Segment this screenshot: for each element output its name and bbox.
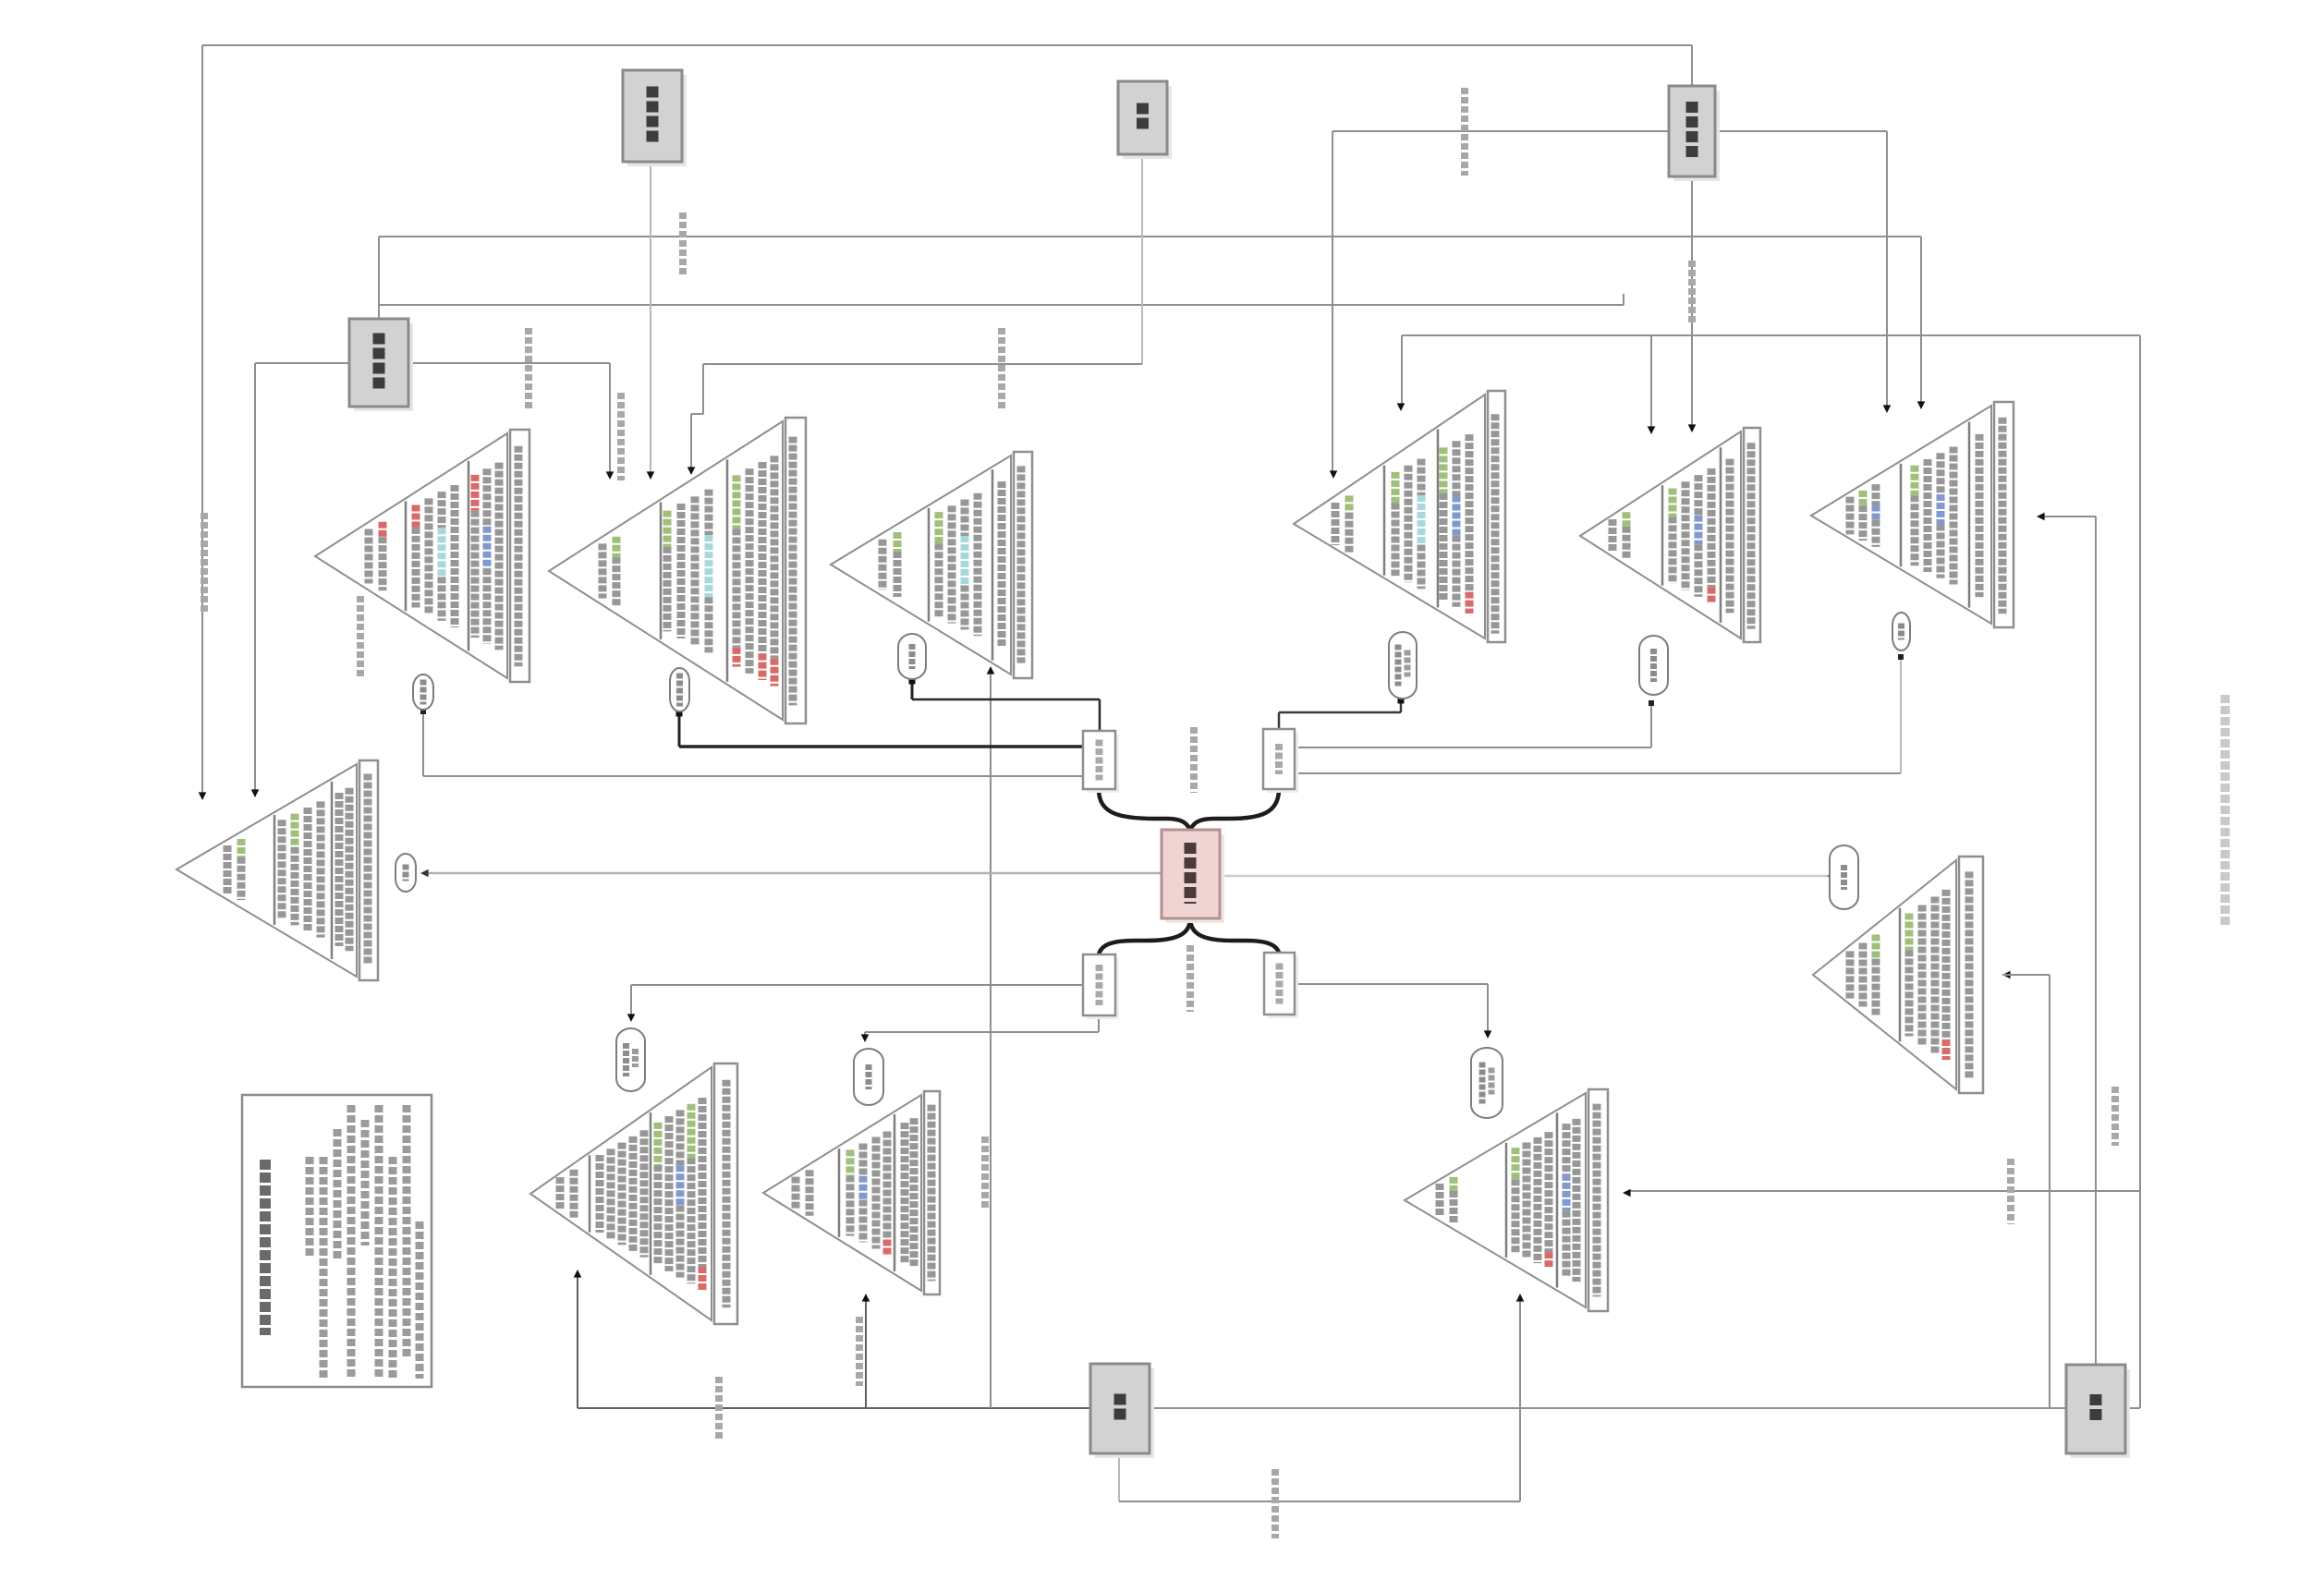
arrow into pyramid T0 from x219 line: [199, 792, 207, 800]
wire aggregator BL bottom to pill PB2: [865, 1015, 1099, 1037]
arrow into pill PR4: [1827, 872, 1835, 881]
arrow into pyramid T2 from x748: [687, 467, 696, 475]
caption figure-2 title (right edge, vertical): [2221, 695, 2230, 926]
wire label L6: [998, 328, 1005, 411]
wire sugar-diet box bottom line to R2: [1691, 176, 1693, 427]
arrow into pill PB1: [627, 1014, 636, 1022]
pill P2 CCl4-alcohol model: [670, 668, 689, 711]
wire label L2: [357, 596, 364, 679]
wire y256 horizontal from sedentary box up-line to R3: [379, 237, 1921, 404]
arrow into pyramid R2 from x1787: [1648, 426, 1656, 434]
wire label L12: [1272, 1469, 1279, 1538]
arrow into pyramid B1 bottom: [574, 1270, 582, 1278]
node aggregator BR white box: [1264, 953, 1298, 1018]
arrow into pyramid T0 from x276: [251, 789, 260, 797]
wire black Y-merge from aggregators TL TR into pink hub top: [1099, 789, 1279, 830]
wire alcohol box top line up to R3 right arrow: [2042, 516, 2096, 1365]
pill PB2 model: [854, 1049, 883, 1105]
node box high-sugar-diet (gray): [1669, 86, 1720, 181]
pyramid T2 (center-left, green-marked): [549, 418, 806, 723]
arrow into pyramid R3 from x2079: [1917, 401, 1926, 409]
wire aggregator TR top elbow to pill PR1 (dark y771): [1279, 698, 1405, 730]
wire label L13: [2007, 1159, 2014, 1224]
pill P3 CCl4 model: [898, 634, 926, 679]
wire aggregator BL left to pill PB1: [631, 985, 1083, 1016]
wire label L1: [201, 513, 208, 614]
wire label L4: [617, 393, 625, 480]
legend box (study-notes panel, bottom left): [242, 1095, 432, 1387]
wire pink hub left to pill P0: [426, 872, 1162, 875]
wire y330 horizontal from sedentary region rightwards: [379, 294, 1624, 305]
wire night-stay box down then left y394 elbow to T2: [691, 154, 1142, 469]
wire medication box down-line to T2: [650, 162, 651, 474]
pill PB3 alcohol-liver model: [1471, 1048, 1503, 1118]
arrow into pyramid R1 from x1442: [1330, 470, 1338, 479]
pyramid B3 (bottom right): [1405, 1089, 1608, 1311]
arrow into pyramid R1 from x1517: [1397, 403, 1405, 411]
node box smoking (gray): [1090, 1364, 1154, 1458]
wire label L9: [981, 1136, 989, 1210]
pill PR4 RCT: [1830, 845, 1858, 909]
pill PR3 model: [1892, 613, 1910, 650]
wire aggregator BR right to pill PB3: [1295, 984, 1488, 1033]
wire label L8: [1688, 261, 1696, 323]
pill P1 DSS model: [413, 674, 433, 710]
node aggregator TR white box: [1263, 729, 1298, 793]
arrow into pyramid B3 right side: [1623, 1189, 1631, 1197]
pyramid T3 (center, cyan-marked): [831, 452, 1032, 678]
node box sedentary (gray): [349, 319, 413, 411]
pyramid R4 (meta-analysis, right-middle): [1813, 857, 1983, 1093]
wire label L7: [1461, 88, 1468, 176]
arrow into pyramid R2 from x1831: [1688, 424, 1697, 432]
wire label L11: [856, 1317, 863, 1386]
arrow into pyramid B2 bottom: [862, 1294, 870, 1302]
pyramid R2: [1580, 428, 1760, 642]
node aggregator BL white box: [1083, 954, 1119, 1019]
wire label L5: [679, 213, 687, 277]
node pink hub silymarin: [1162, 830, 1224, 923]
node box medication-monitoring (gray): [623, 70, 687, 166]
arrow into pyramid T3 bottom: [987, 666, 995, 674]
pyramid R3: [1811, 402, 2014, 627]
wire CCl4 pill to aggregator TL top (black y757): [909, 678, 1101, 732]
node box alcohol (gray): [2066, 1365, 2130, 1458]
wire y393 sedentary box horizontal to T2: [255, 363, 610, 792]
wire DSS pill to aggregator TL (gray y840): [420, 709, 1083, 776]
wire aggregator TR right to pill PR3 (y837): [1295, 654, 1904, 773]
wire label L10: [715, 1377, 723, 1441]
pyramid T1 (sedentary, red-marked): [315, 430, 529, 682]
arrow into pyramid T2 from x660: [606, 471, 614, 480]
wire smoking box bottom y1625 elbow to B3: [1119, 1299, 1520, 1501]
node aggregator TL white box: [1083, 731, 1119, 793]
arrow into pyramid T2 from x704: [647, 471, 655, 480]
pill P0 insulin-resistance model: [395, 854, 416, 892]
node box stay-up-late (gray): [1118, 81, 1172, 159]
arrow into pill PB3: [1484, 1030, 1492, 1039]
pill PR2 fructose model: [1639, 636, 1668, 695]
arrow into pyramid R3 right side: [2037, 513, 2045, 521]
wire label L16: [1186, 945, 1194, 1012]
wire aggregator TR right to pill PR2 (y809): [1295, 700, 1654, 747]
wire y363 horizontal fed by alcohol box right line: [1402, 335, 2140, 429]
arrow into pyramid R3 from x2042: [1883, 405, 1892, 413]
pill PB1 LPS model: [616, 1028, 645, 1091]
arrow into pyramid B3 bottom: [1516, 1294, 1525, 1302]
wire label L14: [2111, 1087, 2119, 1146]
wire alcohol box right line x2316 up to y363 and branch y1289 to B3: [1628, 335, 2140, 1408]
wire y142 horizontal through sugar-diet box with left corner x1442 down to R1: [1332, 131, 1887, 473]
pill PR1 high-fat model: [1389, 632, 1417, 699]
pyramid B2 (bottom center): [763, 1091, 940, 1294]
wire top horizontal y49 from far-left down-line to sugar-diet box: [202, 45, 1692, 795]
arrow into pill PB2: [861, 1034, 870, 1042]
pyramid B1 (bottom left large): [530, 1063, 737, 1324]
wire label L15: [1190, 727, 1198, 793]
arrow into pyramid R4 right side: [2002, 971, 2050, 979]
wire label L3: [525, 328, 532, 411]
wire pink hub right to pill PR4: [1220, 875, 1830, 878]
pyramid T0 (far left, human RCT evidence): [176, 760, 378, 980]
pyramid R1 (high-sugar): [1294, 391, 1505, 642]
wire black Y-split from pink hub bottom to aggregators BL BR: [1099, 918, 1279, 954]
wire smoking box horizontal y1524 with up-branches to B1 B2 and T3: [578, 672, 2066, 1408]
arrow into pill P0: [420, 869, 429, 878]
wire alcohol-model pill to aggregator TL (black y808): [676, 711, 1084, 747]
